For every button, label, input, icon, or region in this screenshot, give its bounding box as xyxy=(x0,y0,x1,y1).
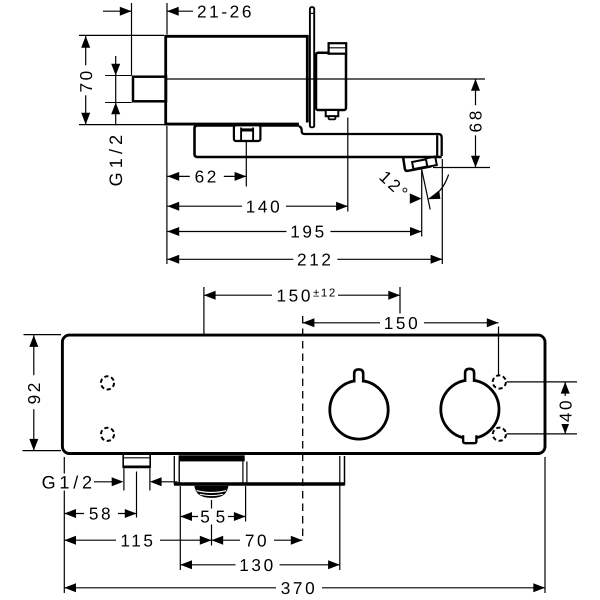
svg-text:115: 115 xyxy=(120,530,155,550)
svg-text:5 5: 5 5 xyxy=(200,507,225,527)
svg-text:212: 212 xyxy=(297,249,333,269)
svg-text:G1/2: G1/2 xyxy=(106,131,126,187)
svg-text:40: 40 xyxy=(555,398,575,422)
svg-text:150: 150 xyxy=(384,313,420,333)
svg-text:70: 70 xyxy=(76,68,96,92)
svg-text:58: 58 xyxy=(89,504,113,524)
svg-text:62: 62 xyxy=(195,167,219,187)
svg-text:195: 195 xyxy=(290,222,326,242)
svg-text:21-26: 21-26 xyxy=(197,1,254,21)
svg-text:140: 140 xyxy=(246,196,282,216)
svg-text:G1/2: G1/2 xyxy=(42,472,96,492)
svg-text:70: 70 xyxy=(245,530,269,550)
svg-text:130: 130 xyxy=(239,555,275,575)
svg-text:370: 370 xyxy=(281,578,317,598)
svg-text:68: 68 xyxy=(466,108,486,132)
svg-text:92: 92 xyxy=(24,380,44,404)
